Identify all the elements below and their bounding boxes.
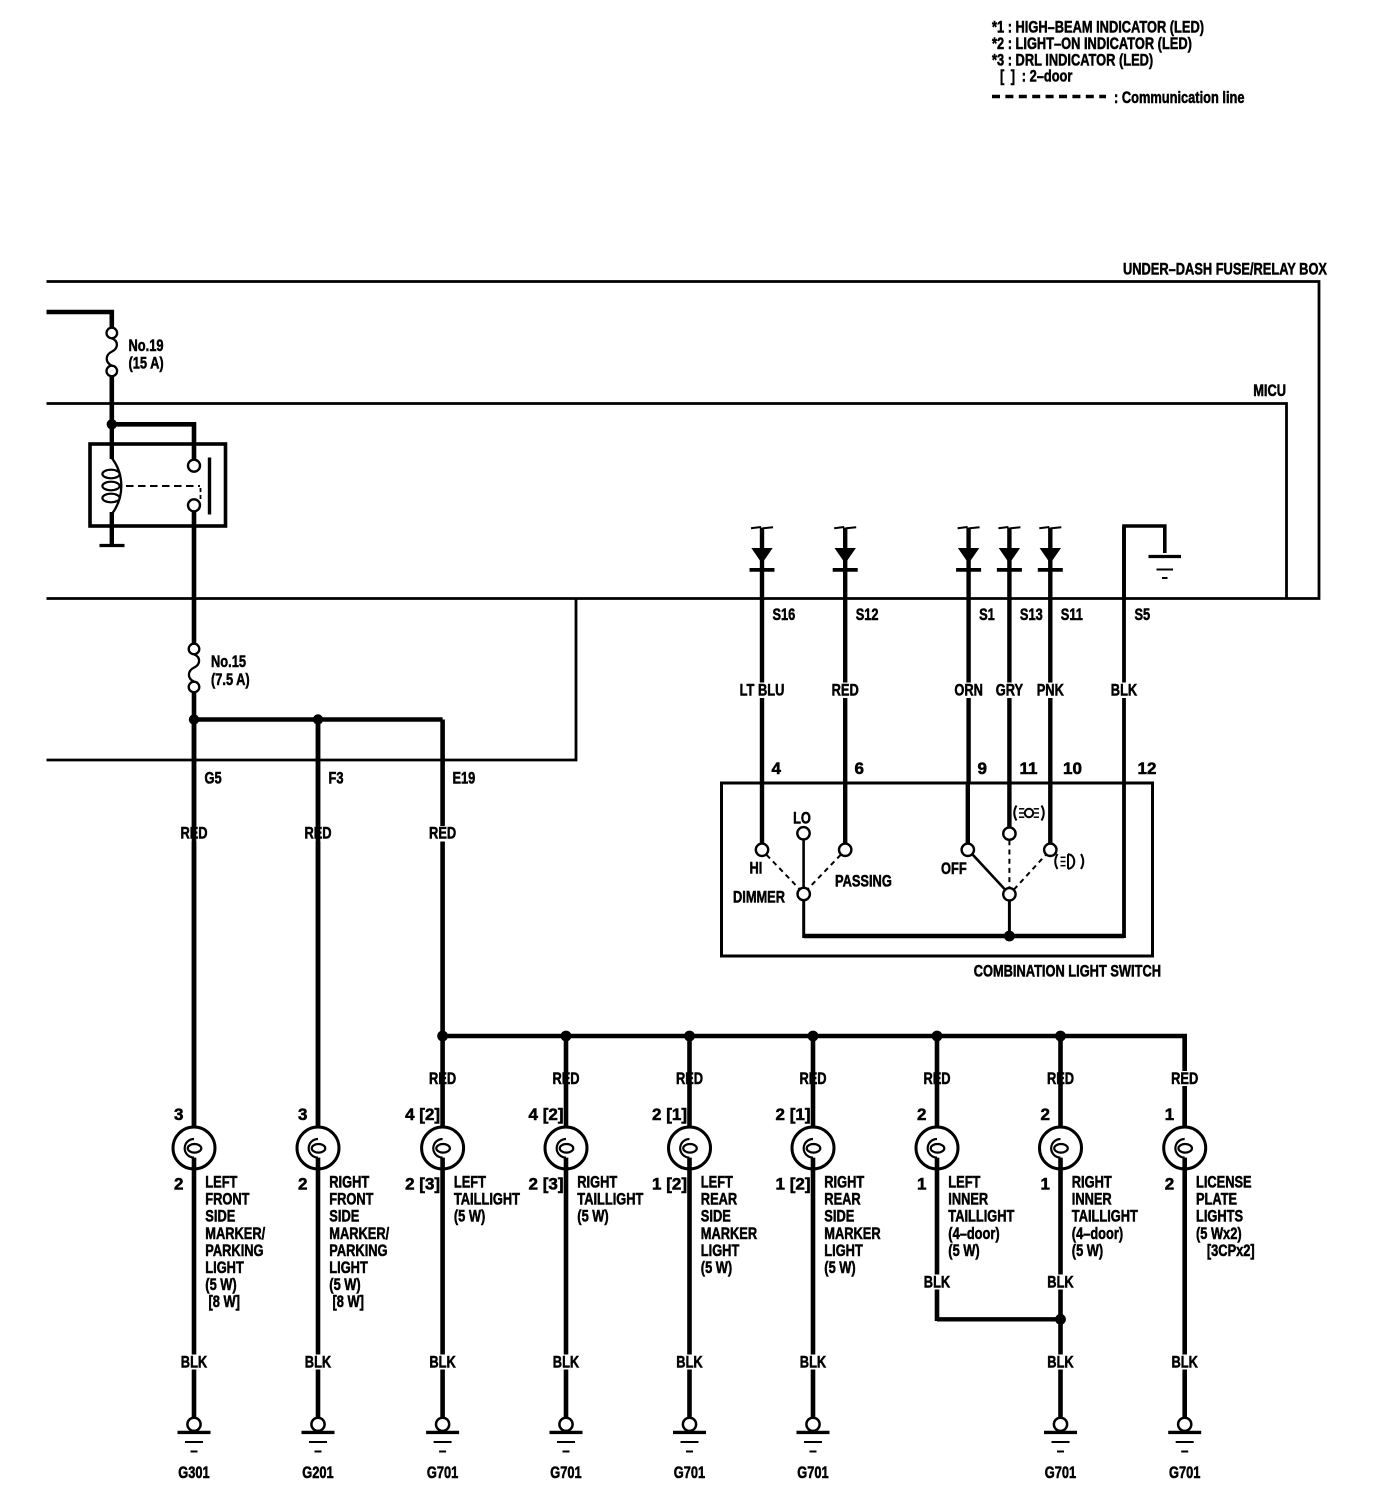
svg-text:1: 1 — [917, 1175, 926, 1194]
svg-text:BLK: BLK — [553, 1353, 580, 1372]
svg-text:[ ] : 2–door: [ ] : 2–door — [1000, 67, 1073, 86]
svg-text:(5 W): (5 W) — [701, 1258, 732, 1277]
svg-text:LO: LO — [793, 809, 811, 828]
svg-text:G301: G301 — [178, 1463, 209, 1482]
wire G5 drop — [192, 720, 197, 1141]
ground (relay coil) — [100, 544, 125, 547]
svg-text:BLK: BLK — [676, 1353, 703, 1372]
wire battery feed — [47, 312, 112, 328]
bulb license plate lights — [1164, 1127, 1206, 1169]
wire feed into left inner taillight — [935, 1036, 940, 1140]
wire feed into left rear side marker light — [687, 1036, 692, 1140]
wire feed into left front side marker/parking light — [192, 720, 197, 1141]
svg-text:(15 A): (15 A) — [129, 354, 164, 373]
svg-text:BLK: BLK — [181, 1353, 208, 1372]
svg-text:BLK: BLK — [429, 1353, 456, 1372]
svg-text:4 [2]: 4 [2] — [529, 1105, 564, 1124]
svg-text:2 [1]: 2 [1] — [652, 1105, 687, 1124]
ground G201 (right front side marker/parking light) — [302, 1418, 335, 1452]
svg-text:11: 11 — [1020, 759, 1038, 778]
wire S5 to MICU internal ground — [1124, 526, 1165, 600]
wire jumper left inner to right inner taillight — [937, 1317, 1061, 1321]
relay armature bar — [208, 458, 211, 515]
wire bulb license plate lights to ground — [1182, 1158, 1187, 1418]
ground G701 (right rear side marker light) — [797, 1418, 830, 1452]
wire bulb left rear side marker light to ground — [687, 1158, 692, 1418]
ground G701 (license plate lights) — [1168, 1418, 1201, 1452]
svg-text:S1: S1 — [979, 605, 995, 624]
component name license plate lights — [1196, 1173, 1255, 1260]
svg-text:2: 2 — [917, 1105, 926, 1124]
svg-text:6: 6 — [855, 759, 864, 778]
switch dashed link PASSING-DIMMER — [808, 855, 841, 889]
svg-text:2: 2 — [1165, 1175, 1174, 1194]
bulb left front side marker/parking light — [173, 1127, 215, 1169]
bulb right inner taillight — [1040, 1127, 1082, 1169]
LED indicator diode S12 — [833, 527, 858, 783]
switch contact light-switch common — [1003, 888, 1015, 900]
legend communication line sample — [992, 95, 1106, 98]
ground G301 (left front side marker/parking light) — [178, 1418, 211, 1452]
relay (taillight relay) box — [90, 444, 226, 526]
svg-text:2 [3]: 2 [3] — [405, 1175, 440, 1194]
wire DIMMER common to switch bus — [802, 900, 805, 938]
svg-text:1: 1 — [1165, 1105, 1174, 1124]
svg-text:G701: G701 — [427, 1463, 458, 1482]
switch dashed link common-pin10 — [1014, 855, 1046, 890]
svg-text:G701: G701 — [1045, 1463, 1076, 1482]
svg-text:RED: RED — [832, 681, 859, 700]
wire bulb right inner taillight to ground — [1058, 1158, 1063, 1418]
svg-text:G701: G701 — [550, 1463, 581, 1482]
bulb right front side marker/parking light — [297, 1127, 339, 1169]
wire light-switch common to switch bus — [1008, 901, 1011, 938]
svg-text:S12: S12 — [856, 605, 879, 624]
svg-text:[3CPx2]: [3CPx2] — [1204, 1241, 1255, 1260]
wire F3 drop — [316, 720, 321, 1141]
svg-text:G701: G701 — [1169, 1463, 1200, 1482]
wire relay coil to ground — [110, 512, 114, 544]
bulb left inner taillight — [916, 1127, 958, 1169]
wire bulb left front side marker/parking light to ground — [192, 1158, 197, 1418]
LED indicator diode S13 — [997, 527, 1022, 783]
svg-text:PNK: PNK — [1037, 681, 1065, 700]
switch dashed link HI-DIMMER — [767, 855, 800, 889]
svg-text:UNDER–DASH FUSE/RELAY BOX: UNDER–DASH FUSE/RELAY BOX — [1123, 260, 1327, 279]
wire pin 11 to parking contact — [1007, 783, 1011, 827]
component name right inner taillight — [1072, 1173, 1139, 1260]
svg-text:COMBINATION LIGHT SWITCH: COMBINATION LIGHT SWITCH — [974, 962, 1161, 981]
svg-text:BLK: BLK — [1047, 1353, 1074, 1372]
bulb left rear side marker light — [669, 1127, 711, 1169]
svg-text:(5 W): (5 W) — [577, 1207, 608, 1226]
wire feed into right rear side marker light — [811, 1036, 816, 1140]
wire junction to relay contact — [112, 424, 194, 460]
junction at relay coil feed — [107, 419, 117, 429]
svg-text:RED: RED — [1171, 1069, 1198, 1088]
svg-text:BLK: BLK — [305, 1353, 332, 1372]
svg-text:F3: F3 — [329, 769, 344, 788]
svg-text:BLK: BLK — [800, 1353, 827, 1372]
component name left inner taillight — [948, 1173, 1015, 1260]
junction switch bus — [1004, 931, 1015, 942]
switch contact PASSING — [839, 844, 851, 856]
icon headlight (low beam) — [1055, 854, 1083, 869]
relay contact fixed (bottom) — [188, 499, 200, 511]
svg-text:DIMMER: DIMMER — [733, 888, 785, 907]
svg-text:G201: G201 — [302, 1463, 333, 1482]
switch dashed link pin11-common — [1008, 840, 1010, 887]
svg-text:1 [2]: 1 [2] — [776, 1175, 811, 1194]
relay coil wire top — [110, 424, 114, 459]
svg-text:BLK: BLK — [1047, 1273, 1074, 1292]
wire relay contact to fuse No.15 — [192, 511, 197, 644]
svg-text:2: 2 — [298, 1175, 307, 1194]
svg-text:GRY: GRY — [996, 681, 1024, 700]
wire pin 9 to OFF contact — [966, 783, 970, 843]
svg-text:[8 W]: [8 W] — [329, 1292, 364, 1311]
wire pin 10 to headlight contact — [1048, 783, 1052, 843]
combination light switch box — [722, 783, 1153, 956]
junction G5 — [189, 714, 199, 724]
wire taillight feed bus — [443, 1036, 1185, 1140]
svg-text:E19: E19 — [453, 769, 476, 788]
switch contact pin 10 (headlight) — [1044, 844, 1056, 856]
relay actuation dashed link — [126, 485, 200, 487]
switch contact LO — [797, 827, 809, 839]
ground G701 (right taillight) — [550, 1418, 583, 1452]
junction bus x=813 — [808, 1031, 819, 1042]
svg-text:2 [3]: 2 [3] — [529, 1175, 564, 1194]
component name right taillight — [577, 1173, 644, 1226]
svg-text:OFF: OFF — [941, 859, 967, 878]
wire feed into right taillight — [564, 1036, 569, 1140]
wire feed into license plate lights — [1182, 1036, 1187, 1140]
wire distribution jumper — [194, 717, 443, 722]
ground G701 (right inner taillight) — [1044, 1418, 1077, 1452]
wire E19 drop — [440, 720, 445, 1039]
bulb left taillight — [422, 1127, 464, 1169]
relay contact fixed (top) — [188, 460, 200, 472]
junction bus x=1060 — [1055, 1031, 1066, 1042]
switch contact pin 11 (parking) — [1003, 827, 1015, 839]
wire feed into right front side marker/parking light — [316, 720, 321, 1141]
svg-text:BLK: BLK — [1111, 681, 1138, 700]
wire bulb right rear side marker light to ground — [811, 1158, 816, 1418]
ground G701 (left rear side marker light) — [673, 1418, 706, 1452]
LED indicator diode S11 — [1038, 527, 1063, 783]
svg-text:S11: S11 — [1061, 605, 1083, 624]
junction bus x=937 — [932, 1031, 943, 1042]
wire feed into right inner taillight — [1058, 1036, 1063, 1140]
switch wiper OFF-common — [972, 854, 1005, 889]
svg-text:BLK: BLK — [1172, 1353, 1199, 1372]
junction bus x=566 — [561, 1031, 572, 1042]
junction inner taillight grounds — [1055, 1314, 1066, 1325]
LED indicator diode S16 — [750, 527, 775, 783]
wire S5 drop to switch pin 12 — [1122, 526, 1126, 938]
ground (MICU internal, S5) — [1149, 557, 1182, 579]
wire bulb right front side marker/parking light to ground — [316, 1158, 321, 1418]
svg-text:G701: G701 — [797, 1463, 828, 1482]
junction F3 — [313, 714, 323, 724]
switch wiper LO-DIMMER — [802, 840, 805, 888]
component name left front side marker/parking light — [205, 1173, 265, 1312]
svg-text:4 [2]: 4 [2] — [405, 1105, 440, 1124]
wire switch internal bus to pin 12 — [804, 934, 1124, 938]
wire fuse No.19 to junction — [110, 376, 115, 426]
junction bus x=689 — [684, 1031, 695, 1042]
wire bulb right taillight to ground — [564, 1158, 569, 1418]
switch contact DIMMER common — [798, 888, 810, 900]
ground G701 (left taillight) — [426, 1418, 459, 1452]
svg-text:BLK: BLK — [924, 1273, 951, 1292]
icon parking lamp (position light) — [1014, 806, 1044, 821]
component name right rear side marker light — [824, 1173, 880, 1278]
under-dash fuse/relay box outline — [47, 282, 1320, 761]
wire feed into left taillight — [440, 1036, 445, 1140]
svg-text:No.19: No.19 — [129, 336, 164, 355]
wire bulb left taillight to ground — [440, 1158, 445, 1418]
svg-text:2: 2 — [174, 1175, 183, 1194]
MICU box outline — [47, 404, 1287, 599]
svg-text:3: 3 — [174, 1105, 183, 1124]
bulb right rear side marker light — [792, 1127, 834, 1169]
svg-text:(5 W): (5 W) — [1072, 1241, 1103, 1260]
svg-text:1 [2]: 1 [2] — [652, 1175, 687, 1194]
wire pin 6 to PASSING contact — [843, 783, 847, 843]
svg-text:(5 W): (5 W) — [948, 1241, 979, 1260]
svg-text:2 [1]: 2 [1] — [776, 1105, 811, 1124]
wire pin 4 to HI contact — [760, 783, 764, 843]
svg-text:9: 9 — [978, 759, 987, 778]
bulb right taillight — [545, 1127, 587, 1169]
svg-text:(7.5 A): (7.5 A) — [211, 670, 250, 689]
svg-text:(5 W): (5 W) — [824, 1258, 855, 1277]
svg-text:PASSING: PASSING — [835, 872, 892, 891]
component name left rear side marker light — [701, 1173, 757, 1278]
svg-text:10: 10 — [1063, 759, 1082, 778]
LED indicator diode S1 — [956, 527, 981, 783]
wire fuse No.15 to junction — [192, 692, 197, 721]
svg-text:G701: G701 — [674, 1463, 705, 1482]
svg-text:(5 W): (5 W) — [454, 1207, 485, 1226]
svg-text:12: 12 — [1138, 759, 1157, 778]
svg-text:RED: RED — [429, 824, 456, 843]
fuse No.19 (15 A) — [107, 328, 118, 377]
svg-text:MICU: MICU — [1253, 381, 1286, 400]
svg-text:1: 1 — [1041, 1175, 1050, 1194]
component name right front side marker/parking light — [329, 1173, 389, 1312]
svg-text:G5: G5 — [205, 769, 222, 788]
svg-text:S13: S13 — [1020, 605, 1043, 624]
junction bus x=442 — [437, 1031, 448, 1042]
svg-text:3: 3 — [298, 1105, 307, 1124]
svg-text:[8 W]: [8 W] — [205, 1292, 240, 1311]
switch contact OFF — [962, 844, 974, 856]
svg-text:ORN: ORN — [954, 681, 983, 700]
relay coil — [102, 458, 121, 514]
svg-text:LT BLU: LT BLU — [740, 681, 785, 700]
svg-text:4: 4 — [772, 759, 782, 778]
switch contact HI — [756, 844, 768, 856]
svg-text:2: 2 — [1041, 1105, 1050, 1124]
svg-text:No.15: No.15 — [211, 652, 246, 671]
component name left taillight — [454, 1173, 521, 1226]
svg-text:: Communication line: : Communication line — [1114, 88, 1245, 107]
svg-text:HI: HI — [750, 859, 763, 878]
wire bulb left inner taillight to ground — [935, 1158, 940, 1321]
svg-text:S16: S16 — [773, 605, 796, 624]
fuse No.15 (7.5 A) — [189, 644, 200, 693]
svg-text:S5: S5 — [1135, 605, 1151, 624]
